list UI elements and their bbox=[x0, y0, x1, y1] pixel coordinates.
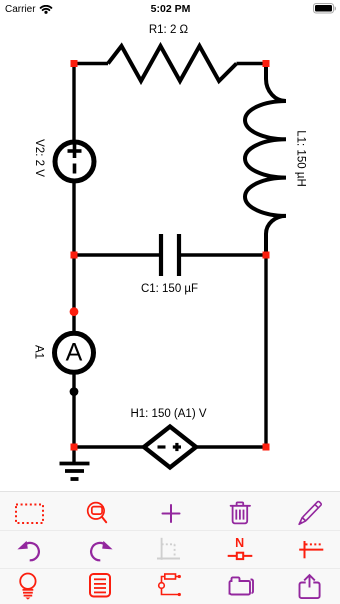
toolbar icon node name (N) bbox=[224, 534, 254, 564]
status bar wifi icon bbox=[39, 5, 53, 14]
node top-right bbox=[263, 60, 270, 67]
svg-text:A1: A1 bbox=[32, 345, 44, 359]
wire top left horizontal to R1 bbox=[74, 62, 108, 65]
svg-text:L1: 150 µH: L1: 150 µH bbox=[294, 130, 306, 187]
toolbar icon share bbox=[296, 572, 324, 600]
node top-left bbox=[71, 60, 78, 67]
status bar battery bbox=[312, 2, 338, 15]
capacitor C1 bbox=[161, 234, 179, 276]
toolbar icon edit (pencil) bbox=[296, 499, 324, 527]
wire capacitor right lead bbox=[181, 253, 266, 256]
toolbar icon undo bbox=[14, 536, 44, 564]
toolbar row separator 1 bbox=[0, 530, 340, 531]
wire right rail bottom (node to L1 bottom) bbox=[264, 255, 267, 447]
voltage source V2 bbox=[55, 142, 94, 181]
resistor R1 bbox=[108, 46, 237, 81]
wire top right horizontal from R1 bbox=[237, 62, 267, 65]
toolbar row separator 2 bbox=[0, 568, 340, 569]
current direction dot (red) bbox=[70, 307, 79, 316]
svg-text:H1: 150 (A1) V: H1: 150 (A1) V bbox=[130, 408, 206, 420]
wire left rail to ammeter bbox=[72, 255, 75, 332]
node mid-right bbox=[263, 252, 270, 259]
wire bottom right horizontal from H1 bbox=[195, 445, 266, 448]
svg-text:V2: 2 V: V2: 2 V bbox=[33, 139, 45, 177]
toolbar icon simulate (lightbulb) bbox=[16, 570, 40, 602]
toolbar icon plot cursor bbox=[296, 536, 326, 564]
status bar clock bbox=[0, 3, 340, 16]
status bar carrier text bbox=[5, 3, 36, 16]
ground bbox=[60, 447, 90, 479]
toolbar background bbox=[0, 491, 340, 604]
wire left rail top (node R1.left to V2 top) bbox=[72, 64, 75, 142]
wire left rail mid (V2 bottom to node C1.left) bbox=[72, 182, 75, 255]
svg-text:N: N bbox=[235, 536, 244, 550]
svg-text:R1: 2 Ω: R1: 2 Ω bbox=[149, 24, 189, 36]
toolbar icon folder bbox=[226, 572, 256, 600]
polarity dot (black) bbox=[70, 387, 79, 396]
wire capacitor left lead bbox=[74, 253, 159, 256]
svg-text:A: A bbox=[66, 338, 83, 366]
toolbar icon netlist (document) bbox=[87, 571, 113, 599]
ammeter A1 bbox=[55, 333, 94, 372]
wire ammeter to bottom node bbox=[72, 374, 75, 447]
toolbar icon subcircuit bbox=[154, 568, 186, 600]
toolbar icon scope axes (disabled) bbox=[152, 534, 186, 564]
dependent source H1 bbox=[144, 427, 196, 468]
toolbar icon select (dotted rect) bbox=[14, 502, 46, 526]
toolbar icon redo bbox=[86, 536, 116, 564]
inductor L1 bbox=[245, 64, 286, 256]
toolbar icon trash bbox=[228, 500, 253, 526]
svg-text:C1: 150 µF: C1: 150 µF bbox=[141, 283, 198, 295]
node bottom-left bbox=[71, 444, 78, 451]
node bottom-right bbox=[263, 444, 270, 451]
toolbar icon zoom-fit (magnifier) bbox=[84, 498, 114, 528]
node mid-left bbox=[71, 252, 78, 259]
toolbar icon add (+) bbox=[160, 503, 182, 525]
wire bottom left horizontal to H1 bbox=[74, 445, 145, 448]
